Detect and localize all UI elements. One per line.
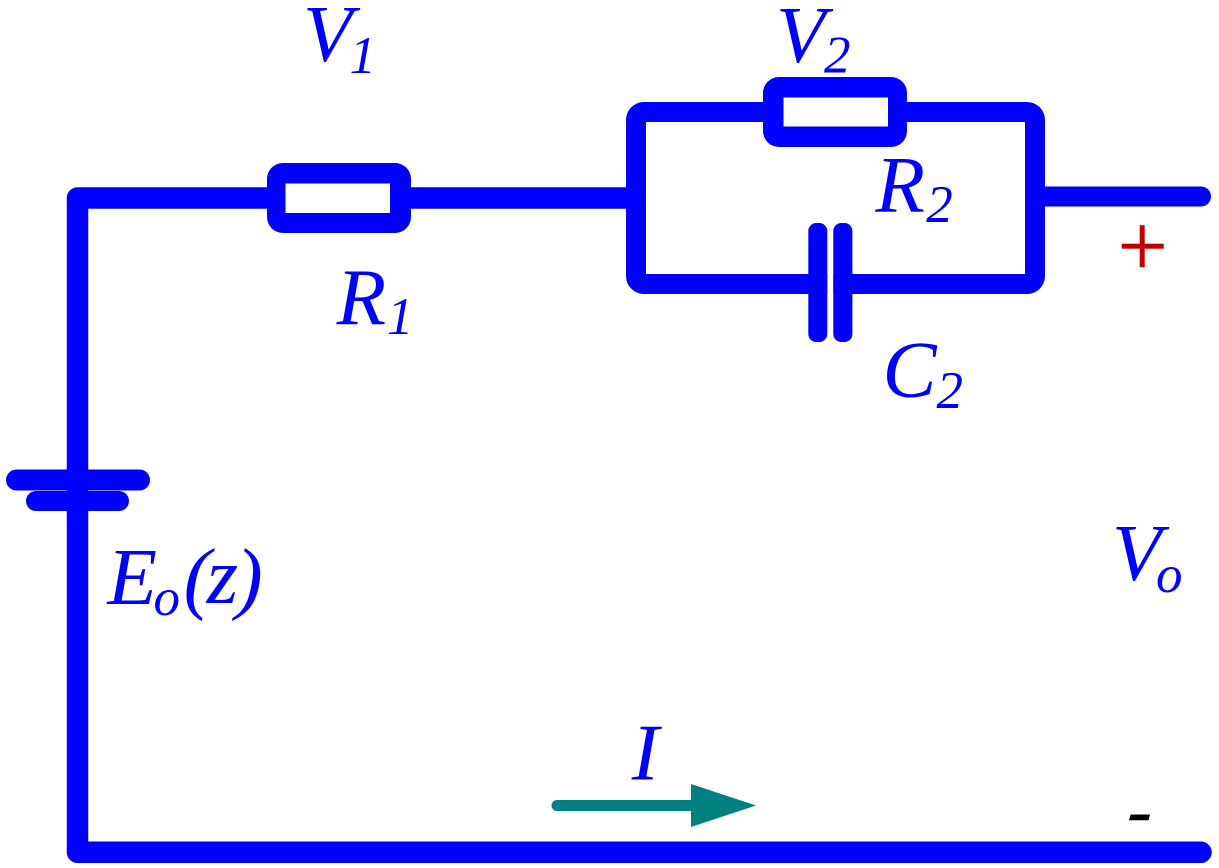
current arrow I <box>557 784 756 827</box>
label V1 <box>303 0 376 85</box>
resistor R1 <box>267 163 411 233</box>
svg-text:R: R <box>336 252 386 342</box>
svg-text:1: 1 <box>350 27 377 85</box>
battery E_o(z) bottom plate <box>36 491 119 511</box>
svg-text:2: 2 <box>926 176 953 234</box>
svg-text:1: 1 <box>387 288 414 346</box>
label Eo(z) voltage source <box>107 531 263 627</box>
battery E_o(z) top plate <box>17 470 140 491</box>
label R1 <box>336 252 414 346</box>
svg-text:z: z <box>206 531 239 621</box>
node loop: parallel R2/C2 rectangle <box>636 112 1035 284</box>
svg-text:E: E <box>107 532 157 622</box>
svg-text:o: o <box>154 569 181 627</box>
label C2 <box>883 325 964 420</box>
svg-text:2: 2 <box>824 27 851 85</box>
label I current <box>631 708 663 798</box>
wire main loop: top horizontal, left vertical, bottom horizontal <box>78 198 1212 863</box>
label Vo output voltage <box>1112 508 1183 604</box>
minus terminal <box>1129 815 1150 821</box>
capacitor C2 <box>808 223 852 342</box>
wire: output lead from parallel block to + terminal <box>1031 187 1211 207</box>
svg-text:o: o <box>1156 546 1183 604</box>
svg-text:R: R <box>875 140 925 230</box>
svg-text:2: 2 <box>937 362 964 420</box>
svg-text:): ) <box>232 532 263 622</box>
label R2 <box>875 140 953 235</box>
svg-text:C: C <box>883 325 938 415</box>
plus terminal <box>1122 225 1164 267</box>
resistor R2 <box>763 77 907 147</box>
label V2 <box>776 0 851 85</box>
svg-text:I: I <box>631 708 663 798</box>
